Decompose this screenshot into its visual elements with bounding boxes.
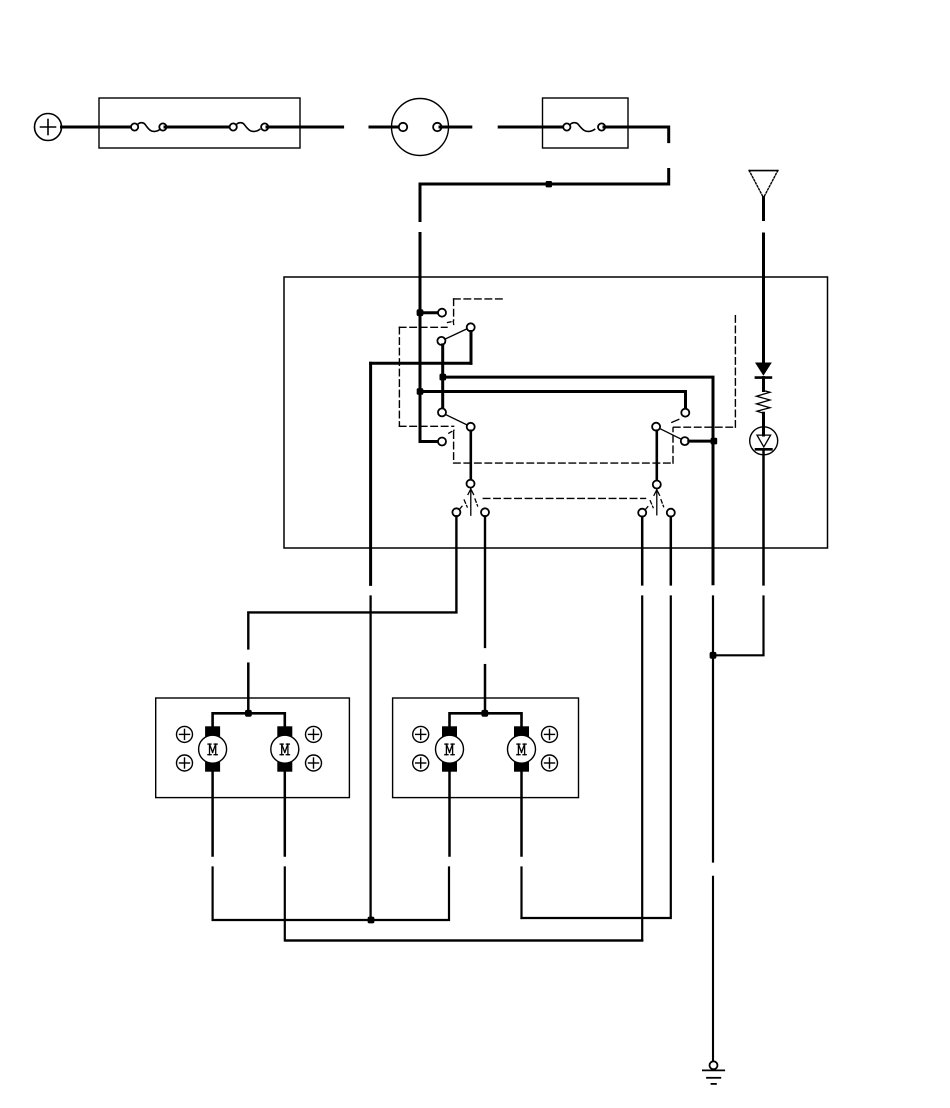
connector C1 (round 2-pin): [392, 99, 449, 156]
park switch left common: [467, 480, 475, 488]
wire H down to switch M: [655, 431, 658, 481]
wire bus y391: [420, 392, 686, 409]
wire antenna stem upper: [762, 198, 765, 220]
park switch left contact tick: [459, 506, 462, 510]
relay linkage dashes top: [454, 299, 506, 321]
junction dot motor box 1: [245, 710, 252, 717]
motor box 1: [156, 698, 350, 798]
junction square on pivot wire: [440, 374, 447, 381]
wire fusible link box to connector: [267, 126, 343, 129]
wire resistor to LED: [762, 413, 765, 435]
wire O lower to line B: [522, 597, 671, 919]
wire stub to contact F: [420, 440, 439, 443]
switch arm upper (C to B): [445, 329, 467, 340]
wire I to bus x713: [689, 440, 713, 443]
polarity mark box1 right top: [306, 726, 322, 742]
wire C pivot down: [441, 345, 444, 409]
junction dot motor box 2: [481, 710, 488, 717]
wire motor M1 down lower: [213, 868, 371, 921]
linkage dashed between park switches: [483, 497, 645, 499]
motor box 2: [393, 698, 579, 798]
contact A: [438, 309, 446, 317]
contact E: [467, 423, 475, 431]
park switch right terminal O: [667, 509, 675, 517]
wire x371 lower to motor bus: [369, 597, 371, 921]
park switch left terminal L: [481, 508, 489, 516]
contact H pivot: [652, 423, 660, 431]
wire right corner lower segment: [420, 170, 669, 185]
wire battery to fusible link box: [62, 126, 134, 129]
relay linkage dashed box left: [399, 327, 453, 426]
wire feed motor box 2 lower: [484, 665, 487, 713]
wire bus y377: [443, 377, 713, 584]
polarity mark box2 right bottom: [542, 755, 558, 771]
switch arm right (H to I): [660, 429, 682, 440]
contact G: [681, 409, 689, 417]
motor M2: [271, 726, 299, 771]
park switch right common: [653, 481, 661, 489]
park switch left wiper arm: [468, 489, 474, 515]
contact C pivot: [437, 337, 445, 345]
connector triangle (power feed from other system): [749, 171, 778, 198]
wire between fusible links: [165, 126, 231, 129]
fusible link FL1: [131, 123, 166, 132]
polarity mark box1 right bottom: [306, 755, 322, 771]
wire motor M2 down lower (line C): [285, 868, 642, 941]
polarity mark box1 left bottom: [177, 755, 193, 771]
junction dot line A: [368, 917, 375, 924]
indicator LED (diode in circle): [750, 427, 778, 455]
wire N lower to line C: [286, 597, 642, 941]
motor M3: [436, 726, 464, 771]
ground symbol: [703, 1070, 724, 1084]
contact D pivot: [438, 408, 446, 416]
park switch right contact tick: [645, 507, 648, 511]
polarity mark box2 left bottom: [413, 755, 429, 771]
wire x713 lower to junction row: [712, 597, 714, 862]
polarity mark box2 left top: [413, 726, 429, 742]
wire K down and jog to motor box 1: [248, 516, 456, 648]
wire bus y363: [371, 362, 471, 365]
contact B: [467, 323, 475, 331]
wire motor box 1 feed split: [213, 713, 285, 727]
wire motor M1 down: [211, 772, 214, 856]
contact I: [681, 437, 689, 445]
wire LED down: [762, 449, 765, 584]
wire fuse box to right corner: [604, 127, 669, 142]
relay linkage hook upper: [448, 321, 454, 326]
contact F: [438, 438, 446, 446]
wire motor M3 down: [448, 772, 451, 856]
junction square node B: [417, 388, 424, 395]
junction dot node D: [710, 652, 717, 659]
fuse F1: [563, 123, 605, 132]
park switch left terminal K: [452, 508, 460, 516]
wire motor box 2 feed split: [450, 713, 522, 727]
wire N down: [641, 517, 644, 585]
switch arm right tick: [672, 419, 679, 422]
fusible link box: [99, 98, 300, 148]
junction dot node A: [417, 309, 424, 316]
fuse box: [543, 98, 629, 148]
wire x420 into control box: [419, 234, 422, 442]
relay linkage hook lower: [449, 430, 454, 433]
wire x371 down inside box: [369, 363, 372, 584]
fusible link FL2: [230, 123, 269, 132]
wire feed motor box 1 lower: [247, 664, 250, 714]
diode D1: [756, 363, 771, 378]
relay linkage dashes mid: [454, 313, 736, 464]
wire E down to switch J: [469, 431, 472, 480]
wire x713 bottom to ground: [712, 877, 714, 1062]
wire motor M4 down: [520, 772, 523, 856]
wire stub to contact A: [420, 311, 438, 314]
wire B down to bus: [470, 332, 473, 364]
wire LED branch to x713: [713, 597, 764, 656]
park switch right wiper arm: [654, 490, 660, 515]
wire line A right half: [371, 868, 449, 921]
junction square node C: [711, 438, 718, 445]
motor M4: [508, 726, 536, 771]
park switch right terminal N: [638, 509, 646, 517]
motor M1: [199, 726, 227, 771]
wire break to fuse box: [499, 126, 564, 129]
wire L down to motor box 2: [484, 516, 486, 647]
junction on feed wire: [546, 181, 552, 187]
park switch right flank dashes: [650, 500, 663, 508]
wire antenna stem lower to diode: [762, 234, 765, 363]
park switch left flank dashes: [464, 499, 477, 507]
polarity mark box2 right top: [542, 726, 558, 742]
resistor R1: [757, 391, 771, 414]
control relay box: [284, 277, 828, 548]
wire down from corner at x420 upper: [419, 184, 422, 221]
ground terminal circle: [710, 1061, 718, 1069]
wire O down: [670, 517, 673, 585]
wire connector to break: [440, 126, 471, 129]
polarity mark box1 left top: [177, 726, 193, 742]
switch arm lower (D to E): [445, 415, 467, 426]
wire diode to resistor: [762, 378, 765, 391]
wire motor M2 down: [284, 772, 287, 856]
battery positive terminal: [35, 114, 62, 141]
wire motor M4 down lower (line B): [520, 868, 522, 919]
